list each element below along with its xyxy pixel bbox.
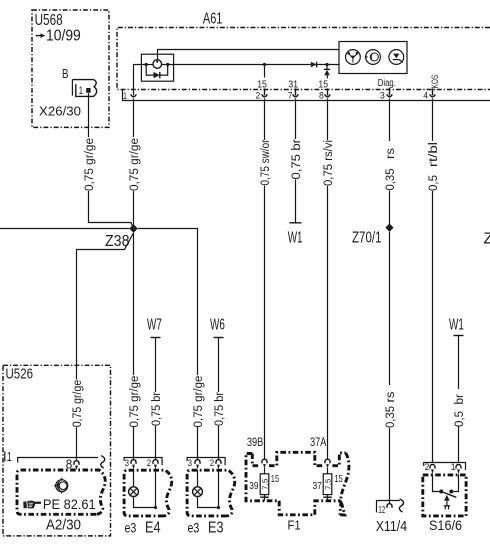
svg-text:15: 15 [271,474,280,485]
svg-text:0,35: 0,35 [385,406,397,428]
svg-text:S16/6: S16/6 [429,518,462,533]
switch S16/6 housing box [423,475,466,516]
diode to pin 8 (cathode up) [324,65,330,79]
wire A61 pin1 to node Z38 [133,98,135,225]
svg-text:15: 15 [335,474,344,485]
svg-text:W1: W1 [449,317,464,334]
node Z38 (solder joint) [105,224,138,250]
motor M sub-box inside A61 [141,54,173,81]
A2/30 module box (torn right edge) [17,470,105,514]
pin 4 of A61 [423,88,435,100]
svg-text:7,5: 7,5 [326,478,333,490]
svg-text:0,75 br: 0,75 br [291,139,303,180]
svg-text:3: 3 [188,458,192,468]
svg-text:E4: E4 [145,519,161,536]
svg-text:KOS: KOS [430,75,440,89]
svg-text:Z70/1: Z70/1 [352,229,382,246]
junction node pin8 branch [325,63,328,66]
svg-text:W1: W1 [288,229,303,246]
pin 7 of A61 [288,88,299,100]
fuse 39 lower wire and tick [260,495,269,501]
wire lamp E4 feed lower [133,233,135,460]
connector bracket lamp E3 [187,458,225,466]
svg-text:8: 8 [319,91,324,101]
svg-text:A61: A61 [203,11,223,28]
svg-text:e3: e3 [125,519,137,535]
svg-text:W7: W7 [147,317,162,334]
connector B symbol (plug with torn edge) [72,80,96,97]
svg-text:br: br [454,394,466,405]
svg-text:1: 1 [7,449,12,464]
pin 8 socket U526 [74,461,79,465]
svg-text:rs: rs [385,391,397,402]
connector X11/4 bracket [377,501,400,513]
wire motor line through [146,64,311,66]
svg-text:2: 2 [256,91,261,101]
svg-text:1: 1 [79,85,84,97]
svg-text:0,75 sw/or: 0,75 sw/or [260,139,272,185]
svg-text:0,5: 0,5 [454,411,466,427]
svg-text:7: 7 [288,91,293,101]
ground point W1 (left) [288,223,303,247]
wire continue U526 feed [76,427,78,460]
svg-text:0,75 gr/ge: 0,75 gr/ge [129,376,141,428]
socket 39B [262,459,267,463]
svg-text:A2/30: A2/30 [46,517,81,533]
svg-text:10/99: 10/99 [46,28,81,45]
svg-text:PE 82.61: PE 82.61 [43,496,96,512]
svg-text:U568: U568 [35,12,63,29]
svg-text:15: 15 [257,79,267,91]
switch actuator (push symbol) [444,495,450,509]
wire into fuse 39 [264,468,266,474]
bulb symbol lamp E3 [193,487,203,497]
socket 37A [325,459,330,463]
pin 2 socket S16/6 [430,465,435,469]
indicator icon 1 (circle with Y symbol) [346,50,361,65]
wire W6 to lamp E3 pin 2 [218,338,220,460]
svg-text:Diag.: Diag. [378,77,396,89]
pointing hand icon [23,501,41,509]
LAMP E3 GROUP [187,458,235,537]
torn edge F1 right [340,453,349,515]
ground point W6 [210,317,225,338]
pin 2 socket lamp E4 [153,460,158,464]
pin 2 of A61 [256,88,268,100]
svg-text:F1: F1 [288,517,301,532]
bulb symbol lamp E4 [129,487,139,497]
lamp E4 housing box (torn right edge) [124,470,172,516]
pin 2 male arrow [217,465,220,470]
wire Z70/1 down to X11/4 [389,232,391,504]
wire A61 pin7 to ground W1 [295,98,297,222]
indicator lamp box inside A61 [339,42,407,74]
pin stub 15 (pin 2) [263,63,266,78]
wire W7 to lamp E4 pin 2 [155,338,157,460]
wire motor top to indicator box [158,50,340,60]
svg-text:37: 37 [313,481,322,492]
svg-text:X26/30: X26/30 [39,104,81,119]
fuse 37 (7,5A) [313,474,344,495]
pin 3 of A61 [380,88,392,101]
svg-text:0,75 rs/vi: 0,75 rs/vi [323,140,335,186]
wire into fuse 37 [327,468,329,474]
svg-text:12: 12 [378,504,385,516]
ground point W7 [147,317,162,338]
svg-text:0,75 br: 0,75 br [151,392,163,426]
pin 3 socket lamp E3 [195,460,200,464]
pin 8 of A61 [319,88,330,100]
pin 2 male arrow [154,465,157,470]
svg-text:0,75 gr/ge: 0,75 gr/ge [193,376,205,428]
control unit U568 box [32,10,109,127]
pin 2 male arrow S16/6 [431,469,434,474]
torn squiggle X11/4 [399,499,403,512]
wire lamp E3 feed lower [197,427,199,460]
pin 3 male arrow [132,465,135,470]
control module A61 box (overhead control panel) [117,11,490,90]
svg-text:37A: 37A [310,437,327,449]
node Z70/1 (solder joint) [352,224,394,247]
wire W1 to S16/6 pin 1 [458,336,460,463]
connector bracket U526 [18,458,98,463]
wire off-page left from Z38 [0,228,129,230]
svg-text:e3: e3 [188,519,200,535]
svg-text:rt/bl: rt/bl [428,142,440,167]
flyback diode loop inside motor box [146,65,168,79]
svg-text:2: 2 [425,462,430,473]
arrow 10/99 [36,28,81,45]
svg-text:4: 4 [423,91,428,101]
lamp E4 internal wires [134,470,156,508]
wire Z38 right then down to lamp E3 [138,229,198,376]
svg-text:1: 1 [123,91,127,101]
LAMP E4 GROUP [124,458,172,537]
svg-text:2: 2 [210,458,214,468]
fuse box F1 outline [246,452,349,515]
wire A61 pin4 to switch S16/6 [432,98,434,462]
svg-text:Z: Z [484,230,490,247]
socket symbol inside A2/30 [54,478,68,494]
switch contacts [439,490,453,494]
wire Z38 diagonal down to U526 [77,233,134,380]
svg-text:3: 3 [380,91,385,101]
svg-text:0,75 br: 0,75 br [214,392,226,426]
male arrow 39B [263,464,266,469]
pin 2 socket lamp E3 [216,460,221,464]
wire motor left to pin 1 [134,65,147,96]
series diode on bus [311,62,339,68]
pin 3 male arrow [196,465,199,470]
pin 1 of A61 [123,91,136,101]
control unit U526 box [3,365,111,536]
pin 3 socket lamp E4 [131,460,136,464]
indicator icon 2 (circle with crescent) [365,50,381,65]
svg-text:15: 15 [318,79,328,91]
svg-text:39: 39 [249,481,258,492]
svg-text:0,75 gr/ge: 0,75 gr/ge [129,138,141,191]
junction dot lamp E3 [217,506,220,509]
lamp E3 internal wires [198,470,219,508]
A61 connector strip line [122,90,490,101]
svg-text:1: 1 [451,462,456,473]
pin 12 socket X11/4 [387,504,392,508]
fuse 39 (7,5A) [249,474,279,495]
svg-text:U526: U526 [6,366,34,383]
svg-text:39B: 39B [247,437,264,449]
junction dots motor [145,63,170,66]
svg-text:B: B [62,66,69,81]
svg-text:0,75 gr/ge: 0,75 gr/ge [72,380,84,428]
svg-text:7,5: 7,5 [262,478,269,490]
wire A61 pin8 to fuse 37A [327,98,329,459]
switch S16/6 bracket [424,463,466,471]
pin 8 male arrow U526 [75,466,78,471]
connector row label 1 (U526) [5,449,12,464]
wire A61 pin3 to Z70/1 [389,98,391,224]
svg-text:0,75 gr/ge: 0,75 gr/ge [84,138,96,191]
ground point W1 (right) [449,317,464,336]
wire A61 pin2 to fuse 39B [264,98,266,459]
svg-text:rs: rs [385,148,397,159]
pin 1 male arrow S16/6 [457,469,460,474]
svg-text:31: 31 [288,79,298,91]
svg-text:0,35: 0,35 [385,169,397,191]
svg-text:3: 3 [125,458,129,468]
indicator icon 3 (circle with triangle symbol) [389,50,404,65]
pin 1 socket S16/6 [456,465,461,469]
svg-text:E3: E3 [208,519,224,536]
male arrow 37A [326,464,329,469]
lamp E3 housing box (torn right edge) [187,470,235,516]
torn squiggle right of bracket (U526) [101,456,105,468]
svg-text:0,5: 0,5 [428,175,440,191]
svg-text:W6: W6 [210,317,225,334]
switch S16/6 internal wires [433,474,459,491]
wire X26/30 to node Z38 [89,93,134,228]
svg-text:X11/4: X11/4 [376,518,407,535]
switch lever [441,492,456,498]
junction dot lamp E4 [154,506,157,509]
fuse 37 lower wire and tick [323,495,332,501]
connector bracket lamp E4 [124,458,162,466]
svg-text:2: 2 [147,458,151,468]
